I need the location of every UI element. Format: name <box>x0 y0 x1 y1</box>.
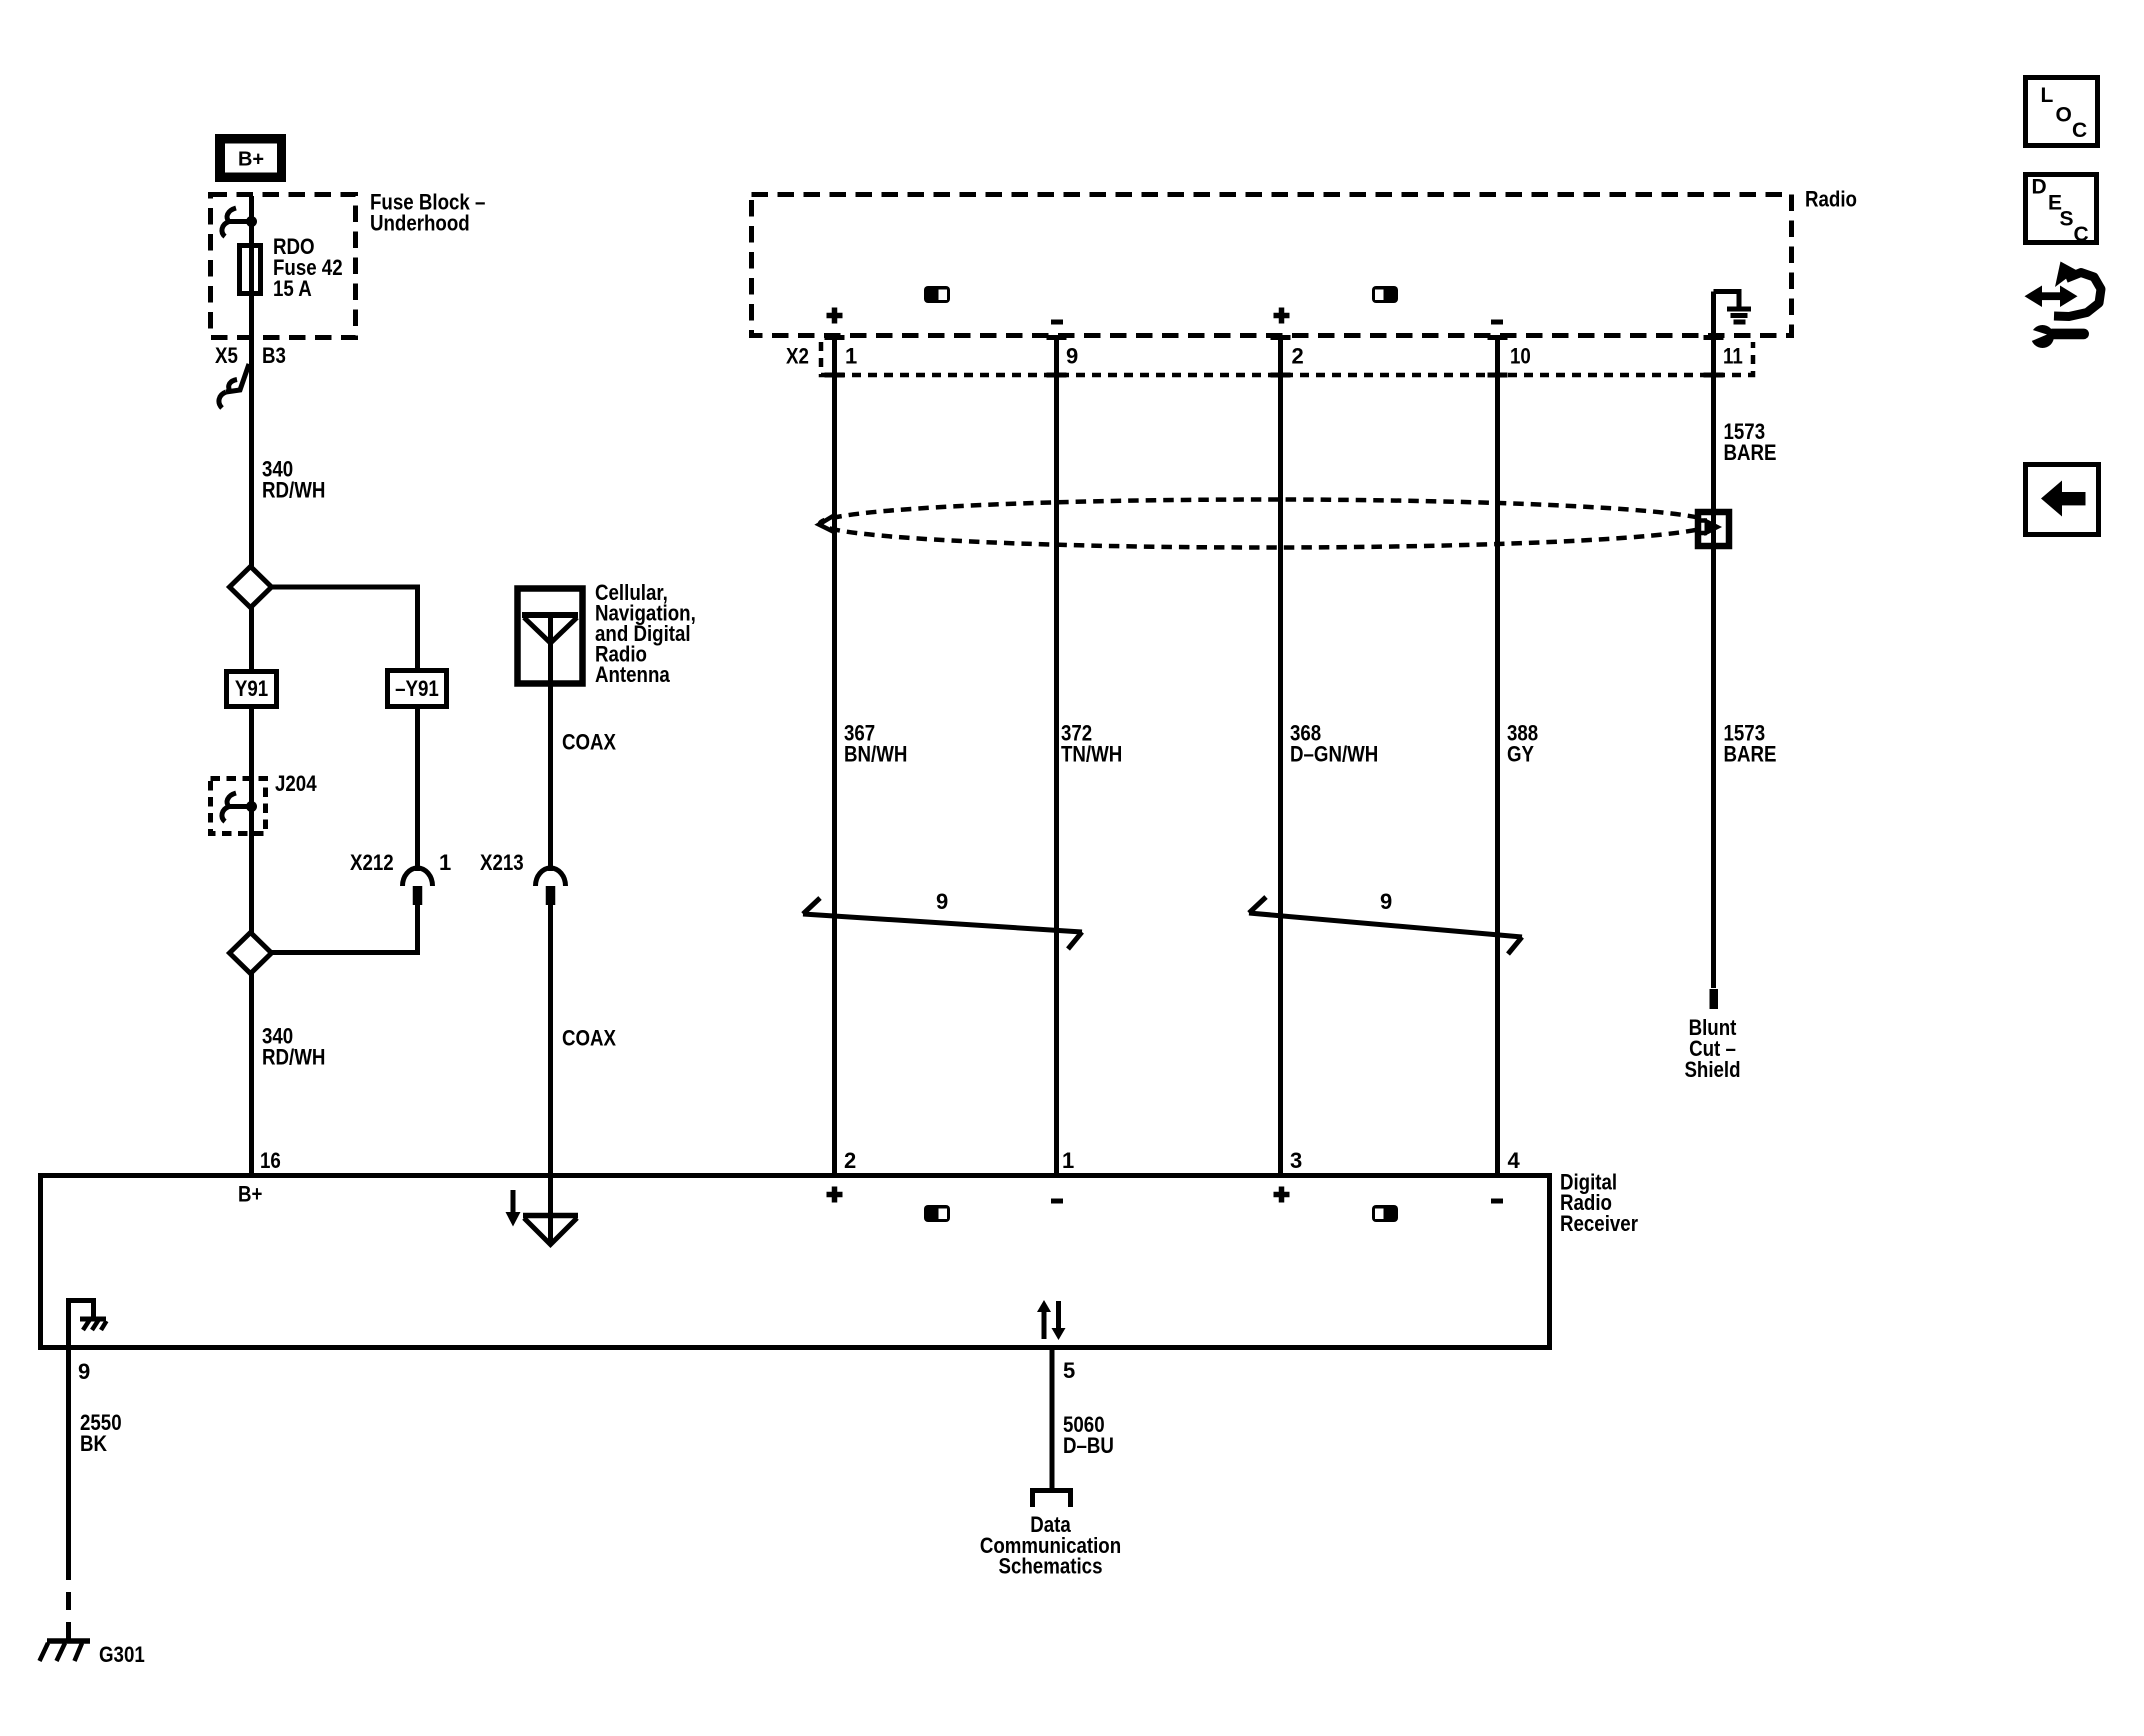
svg-text:11: 11 <box>1723 344 1743 369</box>
svg-text:D: D <box>2032 176 2047 199</box>
svg-text:L: L <box>2041 84 2054 107</box>
svg-text:X5: X5 <box>215 343 238 368</box>
svg-text:RD/WH: RD/WH <box>262 1045 325 1070</box>
svg-text:Antenna: Antenna <box>595 662 670 687</box>
svg-text:1: 1 <box>439 850 451 875</box>
svg-text:9: 9 <box>1380 889 1392 914</box>
svg-text:C: C <box>2074 223 2089 246</box>
svg-text:G301: G301 <box>99 1642 145 1667</box>
svg-text:BK: BK <box>80 1431 107 1456</box>
svg-text:COAX: COAX <box>562 730 616 755</box>
svg-text:3: 3 <box>1290 1148 1302 1173</box>
svg-text:B+: B+ <box>238 149 264 171</box>
svg-text:B+: B+ <box>238 1182 262 1207</box>
svg-text:B3: B3 <box>262 343 286 368</box>
svg-text:4: 4 <box>1508 1148 1521 1173</box>
svg-text:Y91: Y91 <box>235 676 268 701</box>
svg-text:O: O <box>2056 104 2072 127</box>
svg-text:9: 9 <box>1066 344 1078 369</box>
svg-text:Radio: Radio <box>1805 187 1857 212</box>
svg-text:C: C <box>2072 119 2087 142</box>
svg-text:1: 1 <box>1062 1148 1074 1173</box>
svg-text:S: S <box>2060 208 2074 231</box>
svg-text:BARE: BARE <box>1724 742 1777 767</box>
svg-text:9: 9 <box>78 1359 90 1384</box>
svg-text:BN/WH: BN/WH <box>844 742 907 767</box>
svg-text:RD/WH: RD/WH <box>262 478 325 503</box>
svg-text:–Y91: –Y91 <box>395 676 439 701</box>
svg-text:TN/WH: TN/WH <box>1061 742 1122 767</box>
svg-text:2: 2 <box>1292 344 1304 369</box>
svg-text:D–GN/WH: D–GN/WH <box>1290 742 1378 767</box>
svg-text:Receiver: Receiver <box>1560 1211 1638 1236</box>
svg-text:Shield: Shield <box>1684 1057 1740 1082</box>
svg-text:GY: GY <box>1507 742 1534 767</box>
svg-text:5: 5 <box>1063 1358 1075 1383</box>
svg-text:2: 2 <box>844 1148 856 1173</box>
svg-text:Schematics: Schematics <box>999 1554 1103 1579</box>
svg-text:BARE: BARE <box>1724 440 1777 465</box>
svg-text:X2: X2 <box>786 344 809 369</box>
svg-text:X213: X213 <box>480 850 524 875</box>
svg-text:1: 1 <box>845 344 857 369</box>
svg-text:D–BU: D–BU <box>1063 1433 1114 1458</box>
svg-text:9: 9 <box>936 889 948 914</box>
svg-text:16: 16 <box>260 1148 281 1173</box>
svg-text:COAX: COAX <box>562 1026 616 1051</box>
svg-text:15 A: 15 A <box>273 276 312 301</box>
svg-text:X212: X212 <box>350 850 394 875</box>
svg-text:J204: J204 <box>275 771 317 796</box>
svg-text:10: 10 <box>1510 344 1531 369</box>
svg-text:Underhood: Underhood <box>370 211 470 236</box>
